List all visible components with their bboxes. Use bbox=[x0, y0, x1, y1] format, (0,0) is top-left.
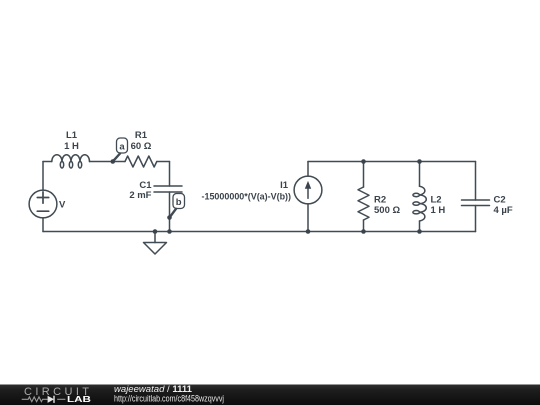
svg-text:-15000000*(V(a)-V(b)): -15000000*(V(a)-V(b)) bbox=[202, 191, 292, 202]
svg-text:60 Ω: 60 Ω bbox=[131, 141, 152, 152]
svg-text:I1: I1 bbox=[280, 180, 289, 191]
svg-text:4 µF: 4 µF bbox=[494, 205, 513, 216]
svg-text:a: a bbox=[119, 141, 125, 152]
svg-text:b: b bbox=[176, 197, 182, 208]
svg-text:500 Ω: 500 Ω bbox=[374, 205, 400, 216]
svg-text:V: V bbox=[59, 199, 66, 210]
svg-text:L1: L1 bbox=[66, 130, 78, 141]
svg-text:1 H: 1 H bbox=[431, 205, 446, 216]
svg-text:LAB: LAB bbox=[67, 394, 91, 404]
svg-text:http://circuitlab.com/c8f458wz: http://circuitlab.com/c8f458wzqvvvj bbox=[114, 393, 224, 403]
svg-text:R1: R1 bbox=[135, 130, 148, 141]
svg-text:wajeewatad / 1111: wajeewatad / 1111 bbox=[114, 384, 192, 394]
svg-text:2 mF: 2 mF bbox=[129, 190, 151, 201]
svg-text:1 H: 1 H bbox=[64, 141, 79, 152]
